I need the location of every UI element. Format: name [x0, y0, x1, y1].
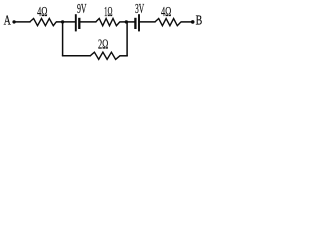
- wire left vertical branch: [62, 22, 64, 56]
- resistor R2: [96, 19, 120, 26]
- battery V1 positive plate (long): [75, 14, 77, 31]
- battery V1 negative plate (short): [78, 18, 80, 29]
- svg-text:2Ω: 2Ω: [98, 37, 108, 52]
- node A terminal dot: [12, 20, 15, 23]
- svg-text:4Ω: 4Ω: [161, 5, 171, 20]
- wire R4 to B: [181, 21, 193, 23]
- wire bottom left segment: [62, 55, 91, 57]
- junction node D dot: [125, 20, 128, 23]
- wire A to R1: [14, 21, 31, 23]
- svg-text:1Ω: 1Ω: [104, 4, 112, 19]
- svg-text:9V: 9V: [77, 2, 87, 17]
- resistor R4: [155, 19, 181, 26]
- battery V2 positive plate (long): [138, 14, 140, 31]
- junction node C dot: [61, 20, 64, 23]
- wire battery V1 to R2: [79, 21, 96, 23]
- svg-text:3V: 3V: [135, 2, 144, 17]
- wire R1 to battery V1: [56, 21, 76, 23]
- battery V2 negative plate (short): [134, 18, 136, 29]
- wire battery V2 to R4: [139, 21, 156, 23]
- resistor R1: [30, 19, 56, 26]
- resistor R3: [90, 52, 120, 59]
- wire R2 to junction D: [120, 21, 136, 23]
- svg-text:4Ω: 4Ω: [37, 5, 47, 20]
- node B terminal dot: [191, 20, 195, 24]
- wire right vertical branch: [126, 22, 128, 56]
- wire bottom right segment: [120, 55, 128, 57]
- svg-text:B: B: [196, 14, 203, 29]
- svg-text:A: A: [4, 14, 12, 29]
